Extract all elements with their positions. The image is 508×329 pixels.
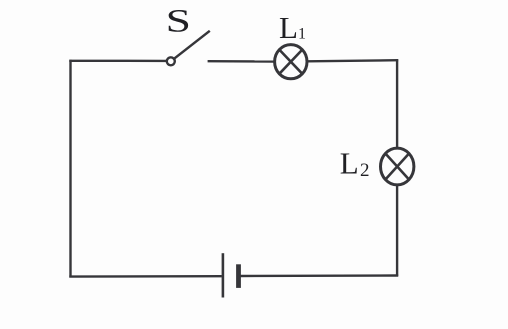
wire: right vertical, corner down to lamp L2 bbox=[396, 59, 398, 148]
wire: switch to lamp L1 bbox=[208, 60, 275, 63]
battery positive plate (long thin) bbox=[222, 253, 225, 297]
wire: lamp L1 to top-right corner bbox=[308, 60, 399, 61]
wire: battery to bottom-left corner bbox=[69, 275, 222, 278]
lamp L2 cross stroke 1 bbox=[385, 154, 409, 180]
wire: bottom, right corner to battery bbox=[241, 274, 399, 277]
switch S pivot circle bbox=[167, 57, 175, 65]
lamp L1 cross stroke 1 bbox=[279, 50, 302, 74]
wire: left vertical side bbox=[69, 60, 71, 278]
lamp L1 cross stroke 2 bbox=[279, 50, 302, 74]
lamp L2 cross stroke 2 bbox=[385, 154, 409, 180]
switch S lever arm bbox=[175, 31, 210, 59]
wire: top, left corner to switch bbox=[69, 60, 166, 63]
svg-text:S: S bbox=[166, 3, 191, 40]
battery negative plate (short thick) bbox=[236, 264, 241, 288]
wire: lamp L2 down to bottom-right corner bbox=[396, 185, 398, 277]
lamp L2 circle bbox=[381, 148, 414, 185]
lamp L1 circle bbox=[275, 45, 307, 79]
